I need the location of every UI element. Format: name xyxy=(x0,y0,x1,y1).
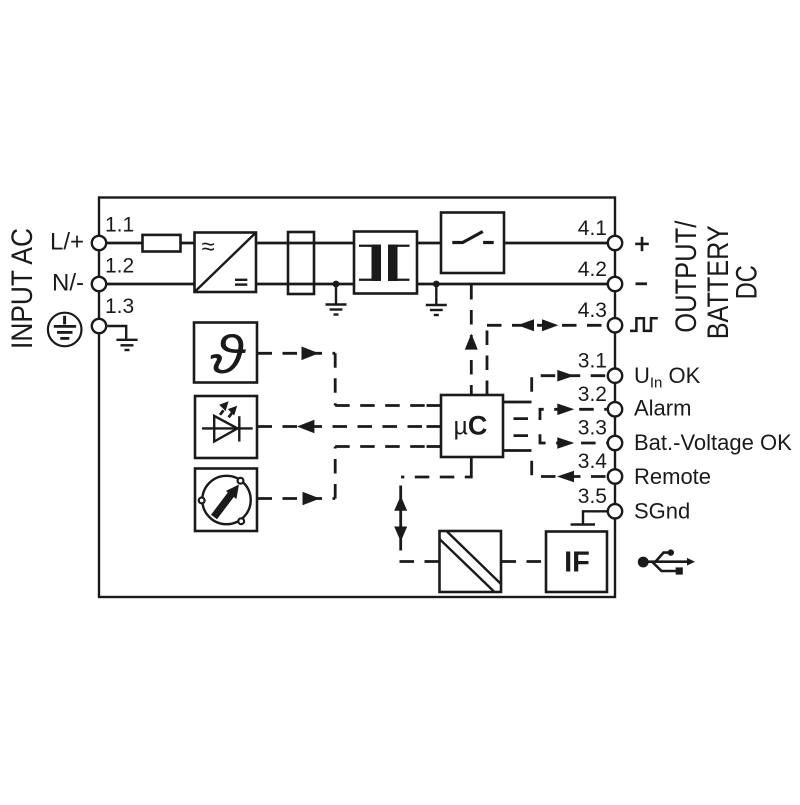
terminal 3.3 xyxy=(608,436,622,450)
svg-text:INPUT AC: INPUT AC xyxy=(6,228,39,349)
svg-text:µC: µC xyxy=(454,411,488,441)
svg-text:3.2: 3.2 xyxy=(578,383,607,406)
interface block IF xyxy=(546,532,607,593)
wire: uC to terminal 3.1 dashed route xyxy=(517,376,607,402)
terminal 1.1 xyxy=(92,236,106,250)
svg-text:4.3: 4.3 xyxy=(578,299,607,322)
protective earth symbol xyxy=(48,313,82,347)
wire: uC to terminal 3.3 dashed route xyxy=(503,436,607,443)
arrow left on 3.4 row xyxy=(557,471,574,483)
svg-text:SGnd: SGnd xyxy=(634,499,690,524)
bidirectional data arrow xyxy=(394,486,407,551)
terminal 1.2 xyxy=(92,277,106,291)
uC pin right 2 xyxy=(503,449,517,452)
ground xyxy=(326,284,347,315)
terminal 3.4 xyxy=(608,469,622,483)
arrow up on uC sense line xyxy=(465,334,478,350)
isolation block xyxy=(440,531,502,592)
arrow right on 3.2 row xyxy=(557,404,574,416)
svg-text:N/-: N/- xyxy=(52,270,84,297)
svg-text:1.1: 1.1 xyxy=(105,213,134,236)
wire: potentiometer to uC dashed route xyxy=(258,447,428,499)
wire: thermometer to uC dashed route xyxy=(258,353,428,405)
plus sign at 4.1 xyxy=(635,237,649,251)
terminal 3.1 xyxy=(608,369,622,383)
wire: uC to terminal 3.2 dashed route xyxy=(503,409,607,418)
terminal 3.5 xyxy=(608,504,622,518)
svg-text:IF: IF xyxy=(564,547,590,579)
uC pin left 3 xyxy=(427,445,442,448)
svg-text:3.5: 3.5 xyxy=(578,485,607,508)
svg-text:3.1: 3.1 xyxy=(578,349,607,372)
wire: uC top pin to terminal 4.3 dashed xyxy=(487,325,607,395)
svg-text:OUTPUT/: OUTPUT/ xyxy=(670,220,703,333)
fuse F1 xyxy=(143,235,181,252)
ground xyxy=(426,284,447,315)
wire: isolation to IF dashed xyxy=(502,560,546,563)
svg-text:Bat.-Voltage OK: Bat.-Voltage OK xyxy=(634,430,792,455)
svg-text:L/+: L/+ xyxy=(50,229,84,256)
wire: terminal 3.4 to uC dashed route xyxy=(517,451,607,477)
wire: terminal 1.3 earth xyxy=(108,326,138,350)
svg-text:4.1: 4.1 xyxy=(578,217,607,240)
svg-text:UIn OK: UIn OK xyxy=(634,363,701,392)
terminal 3.2 xyxy=(608,402,622,416)
terminal 4.3 xyxy=(608,318,622,332)
wire: dashed to isolation block xyxy=(400,560,440,563)
arrow right on thermometer row xyxy=(302,347,319,361)
svg-text:4.2: 4.2 xyxy=(578,258,607,281)
arrow right on 4.3 row xyxy=(542,319,558,331)
microcontroller U1 xyxy=(441,395,503,457)
enclosure outline xyxy=(99,198,615,598)
uC pin left 2 xyxy=(427,425,442,428)
svg-text:DC: DC xyxy=(730,265,763,299)
arrow left on 4.3 row xyxy=(518,319,534,331)
arrow left on LED row xyxy=(297,420,314,434)
wire L/+ rail xyxy=(99,242,608,245)
svg-text:Alarm: Alarm xyxy=(634,396,691,421)
potentiometer box xyxy=(195,469,257,532)
wire N/- rail xyxy=(99,283,608,286)
uC pin left 1 xyxy=(427,404,442,407)
arrow right on 3.1 row xyxy=(557,370,574,382)
svg-text:1.2: 1.2 xyxy=(105,254,134,277)
svg-text:3.3: 3.3 xyxy=(578,417,607,440)
junction on N rail xyxy=(433,281,440,288)
relay switch S1 xyxy=(441,213,504,274)
svg-text:Remote: Remote xyxy=(634,464,711,489)
svg-text:ϑ: ϑ xyxy=(210,325,247,385)
USB symbol xyxy=(638,549,695,574)
filter block xyxy=(288,232,314,294)
svg-text:≈: ≈ xyxy=(202,234,215,261)
wire: uC bottom dashed elbow xyxy=(401,469,471,477)
uC pin bottom xyxy=(470,457,473,469)
minus sign at 4.2 xyxy=(636,282,648,285)
arrow right on potentiometer row xyxy=(303,492,320,506)
uC pin right 1 xyxy=(503,401,517,404)
wire: uC to LED dashed route xyxy=(258,425,428,428)
AC/DC converter xyxy=(195,233,257,293)
terminal 4.2 xyxy=(608,277,622,291)
thermometer sensor box xyxy=(194,323,257,385)
junction on N rail xyxy=(333,281,340,288)
transformer T1 xyxy=(354,232,417,294)
svg-text:1.3: 1.3 xyxy=(105,295,134,318)
terminal 1.3 xyxy=(92,319,106,333)
pulse symbol at 4.3 xyxy=(630,318,658,331)
arrow right on 3.3 row xyxy=(557,437,574,449)
LED indicator box xyxy=(195,396,257,458)
svg-text:3.4: 3.4 xyxy=(578,450,608,473)
signal ground at 3.5 xyxy=(571,511,608,524)
terminal 4.1 xyxy=(608,236,622,250)
wire: uC top pin to N rail dashed xyxy=(470,285,473,395)
